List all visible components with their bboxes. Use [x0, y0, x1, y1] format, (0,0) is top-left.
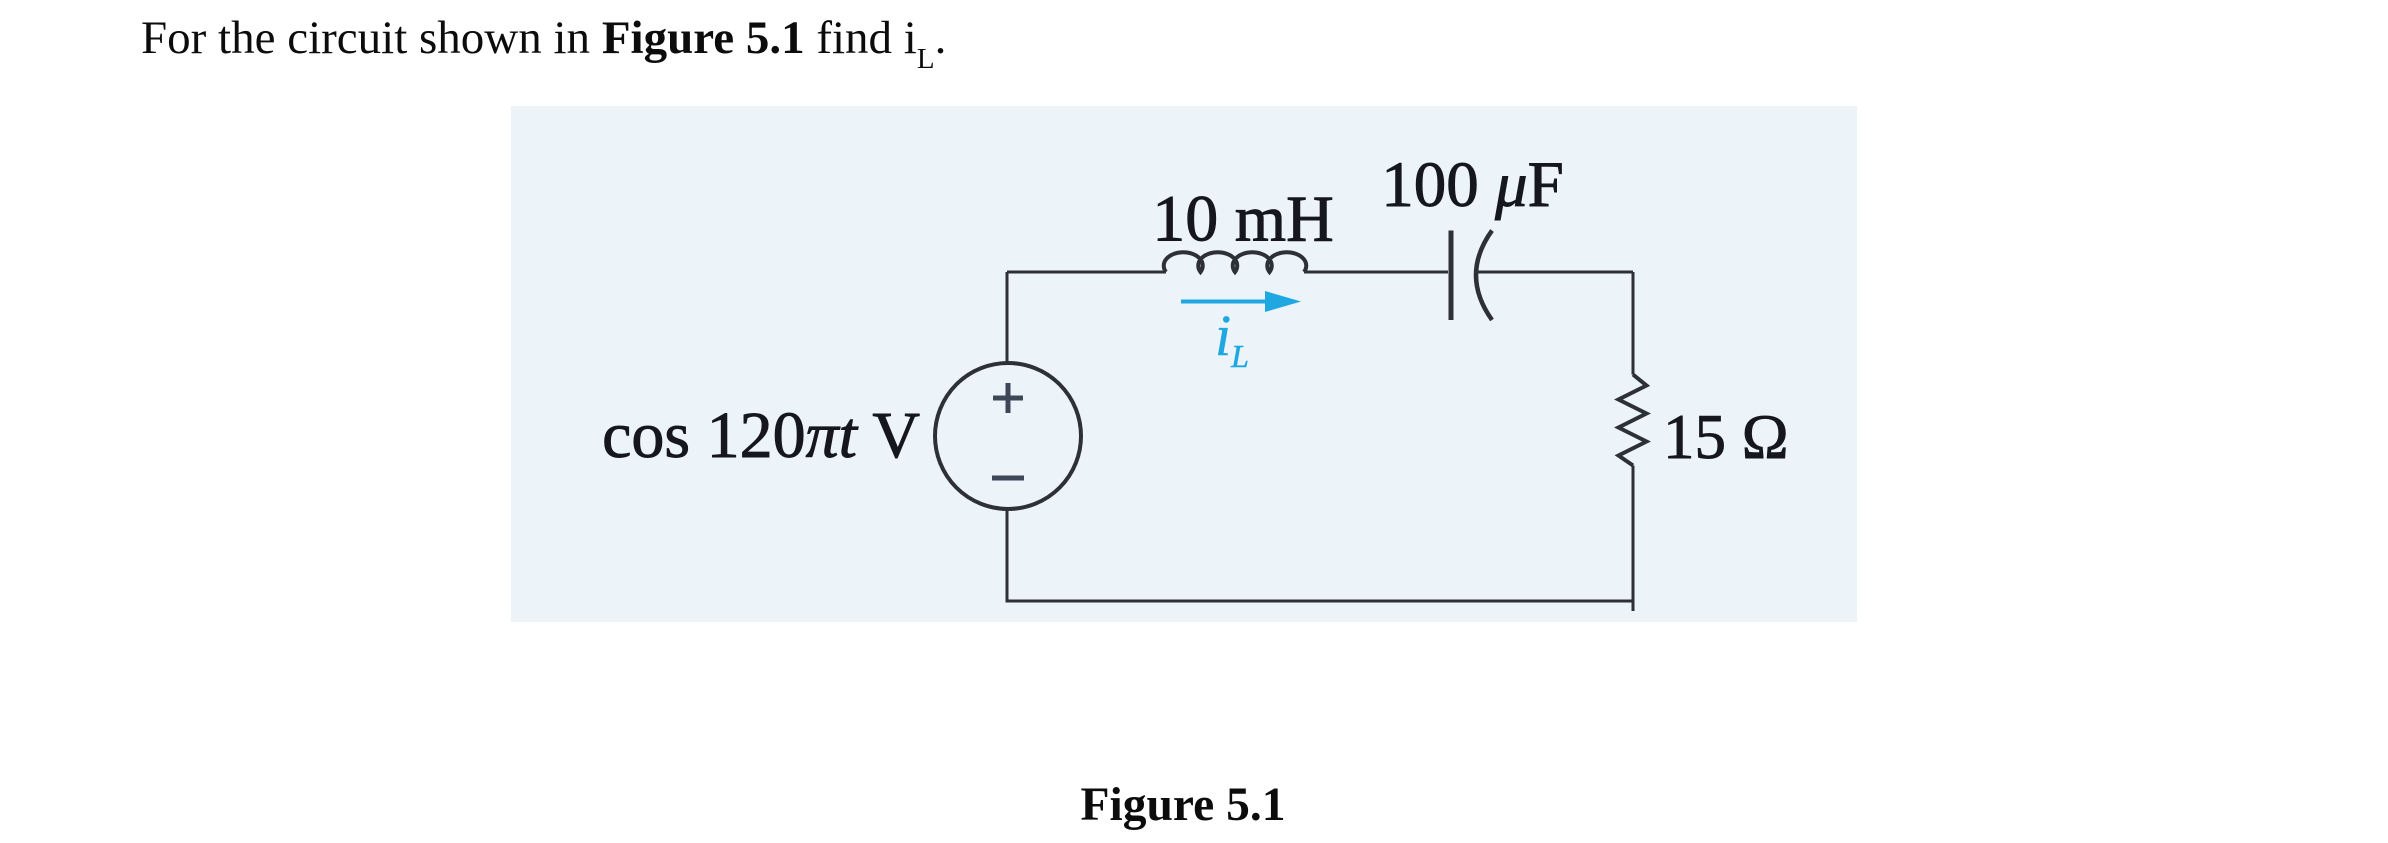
svg-text:10 mH: 10 mH	[1152, 183, 1334, 256]
svg-text:cos 120πt V: cos 120πt V	[602, 399, 920, 472]
svg-text:15 Ω: 15 Ω	[1663, 402, 1789, 472]
svg-text:100 μF: 100 μF	[1381, 149, 1564, 221]
svg-text:iL: iL	[1215, 303, 1249, 374]
svg-text:Figure 5.1: Figure 5.1	[1081, 779, 1286, 831]
